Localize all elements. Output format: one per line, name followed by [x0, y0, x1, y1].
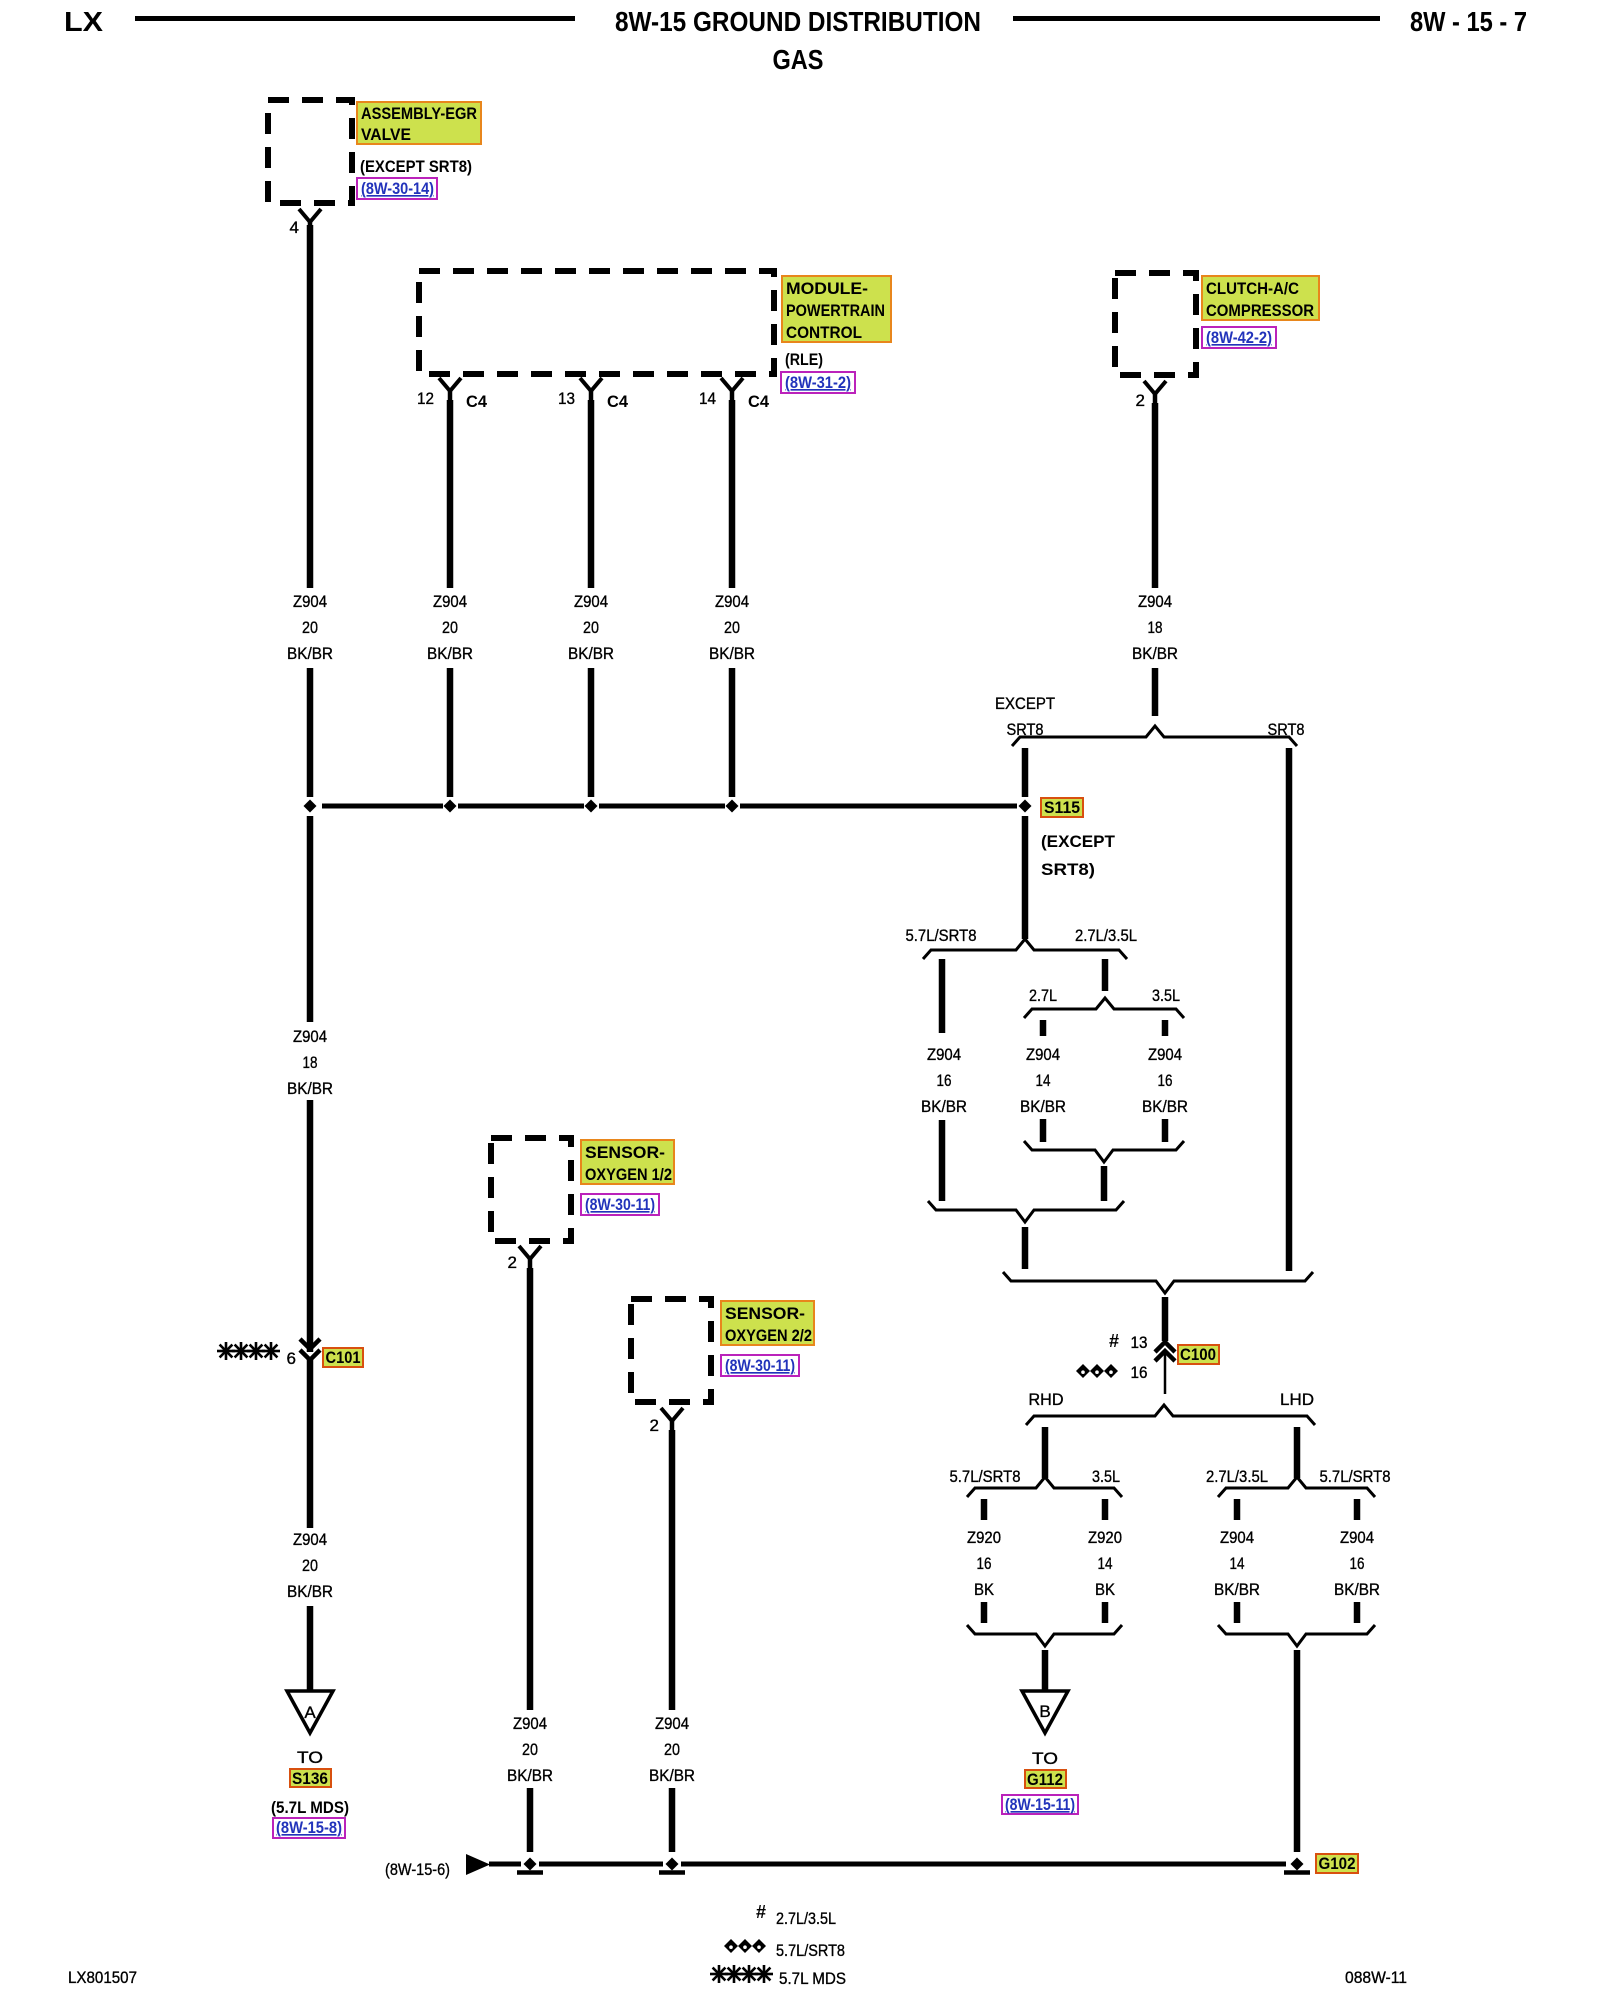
svg-text:18: 18 [303, 1053, 318, 1072]
svg-text:(EXCEPT SRT8): (EXCEPT SRT8) [360, 157, 472, 176]
svg-text:16: 16 [937, 1071, 952, 1090]
svg-text:BK/BR: BK/BR [1334, 1580, 1380, 1599]
svg-text:TO: TO [1032, 1749, 1058, 1768]
svg-text:20: 20 [302, 618, 318, 637]
svg-text:BK/BR: BK/BR [921, 1097, 967, 1116]
svg-text:BK/BR: BK/BR [1132, 644, 1178, 663]
svg-text:LHD: LHD [1280, 1390, 1314, 1409]
svg-text:Z904: Z904 [513, 1714, 547, 1733]
svg-text:(8W-31-2): (8W-31-2) [785, 374, 851, 392]
svg-text:(8W-15-6): (8W-15-6) [385, 1860, 450, 1879]
svg-text:BK: BK [1095, 1580, 1116, 1599]
svg-text:(RLE): (RLE) [785, 350, 823, 369]
svg-text:Z904: Z904 [1138, 592, 1172, 611]
svg-text:6: 6 [287, 1349, 296, 1368]
svg-text:Z904: Z904 [1220, 1528, 1254, 1547]
svg-text:3.5L: 3.5L [1092, 1467, 1120, 1486]
svg-text:BK/BR: BK/BR [427, 644, 473, 663]
svg-text:BK/BR: BK/BR [287, 1079, 333, 1098]
svg-text:#: # [1109, 1331, 1119, 1351]
svg-text:088W-11: 088W-11 [1345, 1968, 1407, 1987]
svg-text:Z904: Z904 [715, 592, 749, 611]
svg-text:Z904: Z904 [1340, 1528, 1374, 1547]
svg-text:(5.7L MDS): (5.7L MDS) [271, 1798, 349, 1817]
svg-text:14: 14 [1098, 1554, 1113, 1573]
svg-text:8W-15 GROUND DISTRIBUTION: 8W-15 GROUND DISTRIBUTION [615, 6, 981, 37]
svg-text:SRT8: SRT8 [1268, 720, 1305, 739]
svg-text:Z904: Z904 [293, 1027, 327, 1046]
svg-text:18: 18 [1148, 618, 1163, 637]
svg-text:Z904: Z904 [927, 1045, 961, 1064]
svg-text:BK: BK [974, 1580, 995, 1599]
svg-text:13: 13 [558, 389, 575, 408]
svg-text:VALVE: VALVE [361, 125, 411, 144]
svg-text:#: # [756, 1902, 766, 1922]
svg-text:C4: C4 [748, 392, 770, 411]
svg-text:2: 2 [508, 1253, 517, 1272]
svg-text:12: 12 [417, 389, 434, 408]
svg-text:BK/BR: BK/BR [287, 1582, 333, 1601]
svg-text:20: 20 [522, 1740, 538, 1759]
svg-text:(EXCEPT: (EXCEPT [1041, 832, 1116, 851]
svg-text:(8W-15-11): (8W-15-11) [1005, 1796, 1075, 1814]
svg-text:Z904: Z904 [1026, 1045, 1060, 1064]
svg-text:Z904: Z904 [1148, 1045, 1182, 1064]
svg-text:CONTROL: CONTROL [786, 323, 862, 342]
svg-text:16: 16 [1350, 1554, 1365, 1573]
svg-text:(8W-42-2): (8W-42-2) [1206, 329, 1272, 347]
svg-text:5.7L/SRT8: 5.7L/SRT8 [906, 926, 977, 945]
svg-text:A: A [304, 1703, 316, 1722]
svg-text:14: 14 [1230, 1554, 1245, 1573]
svg-text:Z920: Z920 [967, 1528, 1001, 1547]
svg-text:OXYGEN 2/2: OXYGEN 2/2 [725, 1326, 812, 1345]
svg-text:2: 2 [650, 1416, 659, 1435]
svg-text:G112: G112 [1027, 1770, 1063, 1789]
svg-text:8W - 15 - 7: 8W - 15 - 7 [1410, 6, 1527, 37]
svg-text:5.7L/SRT8: 5.7L/SRT8 [950, 1467, 1021, 1486]
svg-text:BK/BR: BK/BR [709, 644, 755, 663]
svg-text:G102: G102 [1319, 1854, 1356, 1873]
svg-text:MODULE-: MODULE- [786, 279, 868, 298]
svg-text:Z904: Z904 [574, 592, 608, 611]
svg-text:Z904: Z904 [293, 592, 327, 611]
svg-text:20: 20 [302, 1556, 318, 1575]
svg-text:20: 20 [442, 618, 458, 637]
svg-text:2.7L/3.5L: 2.7L/3.5L [1075, 926, 1137, 945]
svg-text:C100: C100 [1180, 1345, 1216, 1364]
svg-text:BK/BR: BK/BR [649, 1766, 695, 1785]
svg-text:4: 4 [290, 218, 299, 237]
svg-text:14: 14 [1036, 1071, 1051, 1090]
svg-text:14: 14 [699, 389, 716, 408]
svg-text:(8W-30-11): (8W-30-11) [725, 1357, 795, 1375]
svg-text:B: B [1039, 1702, 1050, 1721]
svg-text:Z904: Z904 [433, 592, 467, 611]
svg-text:20: 20 [724, 618, 740, 637]
svg-text:2.7L/3.5L: 2.7L/3.5L [776, 1909, 836, 1928]
svg-text:SENSOR-: SENSOR- [725, 1304, 805, 1323]
svg-text:C4: C4 [607, 392, 629, 411]
svg-text:BK/BR: BK/BR [568, 644, 614, 663]
svg-text:OXYGEN 1/2: OXYGEN 1/2 [585, 1165, 672, 1184]
svg-text:BK/BR: BK/BR [1214, 1580, 1260, 1599]
svg-text:5.7L MDS: 5.7L MDS [779, 1969, 846, 1988]
svg-text:SRT8: SRT8 [1007, 720, 1044, 739]
svg-text:(8W-30-14): (8W-30-14) [361, 180, 434, 198]
svg-text:2.7L/3.5L: 2.7L/3.5L [1206, 1467, 1268, 1486]
svg-text:CLUTCH-A/C: CLUTCH-A/C [1206, 279, 1299, 298]
svg-text:EXCEPT: EXCEPT [995, 694, 1055, 713]
svg-text:LX: LX [64, 6, 103, 37]
svg-text:Z904: Z904 [655, 1714, 689, 1733]
svg-text:TO: TO [297, 1748, 323, 1767]
svg-text:BK/BR: BK/BR [287, 644, 333, 663]
svg-text:COMPRESSOR: COMPRESSOR [1206, 301, 1314, 320]
svg-text:16: 16 [1131, 1363, 1148, 1382]
svg-text:GAS: GAS [773, 44, 824, 75]
svg-text:Z904: Z904 [293, 1530, 327, 1549]
svg-text:BK/BR: BK/BR [507, 1766, 553, 1785]
svg-text:16: 16 [1158, 1071, 1173, 1090]
svg-text:BK/BR: BK/BR [1020, 1097, 1066, 1116]
svg-text:SRT8): SRT8) [1041, 860, 1095, 879]
svg-text:5.7L/SRT8: 5.7L/SRT8 [776, 1941, 845, 1960]
svg-text:POWERTRAIN: POWERTRAIN [786, 301, 885, 320]
svg-text:13: 13 [1131, 1333, 1148, 1352]
svg-text:C101: C101 [326, 1348, 361, 1367]
svg-text:LX801507: LX801507 [68, 1968, 137, 1987]
svg-text:5.7L/SRT8: 5.7L/SRT8 [1320, 1467, 1391, 1486]
svg-text:(8W-30-11): (8W-30-11) [585, 1196, 655, 1214]
svg-text:Z920: Z920 [1088, 1528, 1122, 1547]
svg-text:ASSEMBLY-EGR: ASSEMBLY-EGR [361, 104, 477, 123]
svg-text:2.7L: 2.7L [1029, 986, 1057, 1005]
svg-text:S136: S136 [292, 1769, 328, 1788]
svg-text:C4: C4 [466, 392, 488, 411]
svg-text:3.5L: 3.5L [1152, 986, 1180, 1005]
svg-text:2: 2 [1136, 391, 1145, 410]
svg-text:20: 20 [664, 1740, 680, 1759]
svg-text:(8W-15-8): (8W-15-8) [276, 1819, 342, 1837]
svg-text:BK/BR: BK/BR [1142, 1097, 1188, 1116]
svg-text:SENSOR-: SENSOR- [585, 1143, 665, 1162]
svg-text:S115: S115 [1044, 798, 1080, 817]
svg-text:RHD: RHD [1029, 1390, 1064, 1409]
svg-text:20: 20 [583, 618, 599, 637]
svg-text:16: 16 [977, 1554, 992, 1573]
